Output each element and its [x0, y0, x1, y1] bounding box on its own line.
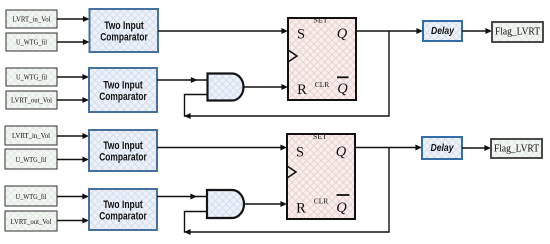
svg-text:Comparator: Comparator [99, 210, 147, 222]
wire U4 output to AND gate G2 top input [157, 194, 207, 200]
wire FF1 Q feedback to AND gate G1 lower input [184, 31, 389, 119]
input box U_WTG_fil (top group 2) [6, 68, 57, 86]
wire input7 to comparator U4 [57, 194, 89, 200]
comparator U1 Two Input Comparator [90, 9, 159, 52]
svg-text:R: R [297, 82, 307, 98]
input box U_WTG_fil (bottom group 1) [5, 149, 57, 169]
comparator U3 Two Input Comparator [89, 130, 157, 171]
wire G1 output to FF1 R input [244, 84, 289, 90]
input box LVRT_out_Vol (top group 2) [6, 91, 57, 109]
svg-text:S: S [297, 27, 305, 43]
svg-text:Delay: Delay [431, 143, 454, 154]
svg-text:U_WTG_fil: U_WTG_fil [16, 155, 47, 164]
svg-text:Q: Q [336, 144, 347, 160]
wire input5 to comparator U3 [57, 133, 89, 139]
svg-text:Two Input: Two Input [104, 20, 144, 32]
output box Flag_LVRT (bottom) [491, 139, 542, 158]
svg-text:R: R [296, 201, 306, 217]
input box LVRT_in_Vol (top group 1) [6, 10, 57, 28]
input box LVRT_out_Vol (bottom group 2) [5, 211, 57, 231]
wire input2 to comparator U1 [57, 39, 90, 45]
svg-text:SET: SET [313, 132, 328, 141]
svg-text:U_WTG_fil: U_WTG_fil [16, 192, 47, 201]
wire input6 to comparator U3 [57, 157, 89, 163]
svg-text:Delay: Delay [431, 26, 454, 37]
svg-text:U_WTG_fil: U_WTG_fil [16, 73, 47, 82]
svg-text:Q: Q [336, 200, 347, 216]
svg-text:Two Input: Two Input [103, 80, 143, 92]
SR flip-flop FF1 [288, 15, 356, 100]
wire FF2 Q feedback to AND gate G2 lower input [184, 148, 389, 236]
wire U1 output to FF1 S input [158, 28, 288, 34]
wire FF2 Q output to Delay D2 [355, 145, 422, 151]
svg-text:Q: Q [337, 26, 348, 42]
svg-text:Comparator: Comparator [99, 91, 147, 103]
svg-text:CLR: CLR [315, 80, 330, 89]
input box LVRT_in_Vol (bottom group 1) [5, 126, 57, 145]
wire G2 output to FF2 R input [244, 201, 287, 207]
comparator U2 Two Input Comparator [89, 68, 157, 112]
svg-text:U_WTG_fil: U_WTG_fil [16, 38, 47, 47]
SR flip-flop FF2 [287, 132, 355, 219]
svg-text:Two Input: Two Input [103, 140, 143, 152]
svg-text:LVRT_in_Vol: LVRT_in_Vol [13, 15, 51, 24]
wire input4 to comparator U2 [57, 97, 89, 103]
svg-text:Q: Q [337, 81, 348, 97]
svg-text:Flag_LVRT: Flag_LVRT [494, 143, 539, 154]
wire D1 output to Flag_LVRT output box 1 [462, 28, 492, 34]
svg-text:Comparator: Comparator [100, 31, 148, 43]
wire U2 output to AND gate G1 top input [157, 77, 208, 83]
svg-text:LVRT_out_Vol: LVRT_out_Vol [11, 96, 52, 105]
svg-text:LVRT_out_Vol: LVRT_out_Vol [11, 217, 52, 226]
svg-text:SET: SET [314, 15, 329, 24]
svg-text:S: S [296, 144, 304, 160]
input box U_WTG_fil (top group 1) [6, 33, 57, 51]
svg-text:LVRT_in_Vol: LVRT_in_Vol [12, 131, 50, 140]
delay block D2 [422, 137, 462, 159]
wire input8 to comparator U4 [57, 218, 89, 224]
delay block D1 [423, 21, 462, 41]
input box U_WTG_fil (bottom group 2) [5, 186, 57, 206]
AND gate G1 [208, 74, 244, 101]
comparator U4 Two Input Comparator [89, 189, 157, 230]
svg-text:CLR: CLR [314, 197, 329, 206]
AND gate G2 [207, 190, 244, 218]
svg-text:Flag_LVRT: Flag_LVRT [495, 26, 540, 37]
svg-text:Two Input: Two Input [103, 199, 143, 211]
wire FF1 Q output to Delay D1 [356, 28, 423, 34]
wire input1 to comparator U1 [57, 16, 90, 22]
wire input3 to comparator U2 [57, 74, 89, 80]
wire D2 output to Flag_LVRT output box 2 [462, 145, 491, 151]
wire U3 output to FF2 S input [157, 145, 287, 151]
svg-text:Comparator: Comparator [99, 151, 147, 163]
output box Flag_LVRT (top) [492, 22, 543, 42]
